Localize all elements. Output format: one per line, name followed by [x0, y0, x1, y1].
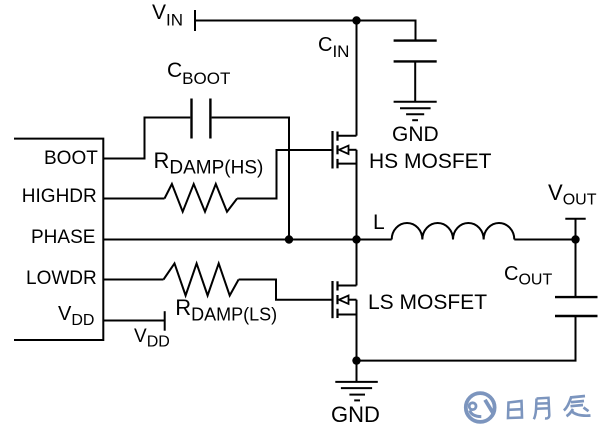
node ground junction dot	[352, 356, 360, 364]
capacitor COUT top plate	[555, 296, 598, 298]
capacitor CIN top plate	[394, 39, 437, 41]
VIN terminal tick	[194, 10, 196, 31]
logo watermark circle	[466, 393, 495, 422]
label VOUT	[548, 182, 596, 209]
wire PHASE pin	[103, 239, 356, 241]
VOUT terminal tick	[565, 218, 585, 220]
VDD terminal tick	[164, 311, 166, 331]
label CBOOT	[167, 60, 230, 87]
wire HS source to PHASE node	[356, 150, 358, 240]
capacitor C_BOOT right plate	[209, 99, 211, 139]
wire PHASE node to inductor	[357, 239, 392, 241]
label GND (bottom)	[331, 404, 380, 426]
wire VOUT tick to node	[575, 219, 577, 240]
wire BOOT pin	[103, 118, 190, 159]
logo character 月	[534, 398, 550, 419]
label HS MOSFET	[369, 151, 492, 172]
label VIN	[152, 2, 183, 29]
resistor R_DAMP(LS)	[164, 263, 239, 295]
label pin PHASE	[31, 228, 95, 247]
wire LOWDR pin to resistor	[103, 279, 163, 281]
ground symbol (bottom, under LS MOSFET)	[335, 382, 378, 401]
wire resistor to LS gate	[239, 280, 332, 300]
capacitor COUT bottom plate	[555, 315, 598, 317]
node VIN junction dot	[352, 16, 360, 24]
label pin VDD	[58, 304, 94, 329]
wire inductor to VOUT node	[514, 239, 575, 241]
label L (inductor)	[373, 212, 385, 233]
wire VDD pin	[103, 320, 164, 322]
transistor LS MOSFET	[333, 281, 357, 318]
transistor HS MOSFET	[333, 131, 357, 169]
resistor R_DAMP(HS)	[165, 184, 238, 212]
inductor L	[392, 223, 515, 240]
wire C_BOOT to PHASE node	[212, 118, 289, 240]
wire ground node to COUT bottom	[357, 316, 576, 361]
logo character 辰	[564, 396, 591, 416]
label pin HIGHDR	[22, 187, 97, 206]
wire LS source to ground node	[356, 300, 358, 361]
logo character 日	[508, 401, 522, 418]
wire PHASE node to LS drain	[356, 240, 358, 286]
wire CIN to ground	[414, 61, 416, 101]
wire main vertical: VIN node to HS drain	[356, 21, 358, 136]
wire resistor to HS gate	[237, 150, 331, 199]
label pin BOOT	[44, 149, 98, 168]
controller box (open left side)	[14, 139, 103, 340]
capacitor CIN bottom plate	[394, 60, 437, 62]
label GND (top)	[392, 124, 439, 145]
label VDD external	[134, 327, 170, 351]
node PHASE/CBOOT junction dot	[285, 235, 293, 243]
label RDAMP(HS)	[154, 150, 264, 178]
node PHASE/main junction dot	[352, 235, 360, 243]
label RDAMP(LS)	[175, 297, 277, 324]
wire HIGHDR pin to resistor	[103, 198, 164, 200]
wire corner down to CIN	[415, 20, 417, 41]
wire ground stub	[356, 361, 358, 382]
label CIN	[318, 35, 349, 60]
node VOUT junction dot	[571, 235, 579, 243]
label COUT	[504, 264, 552, 289]
wire VIN to top corner	[195, 20, 416, 22]
label LS MOSFET	[368, 292, 487, 313]
capacitor C_BOOT left plate	[190, 99, 192, 139]
ground symbol (top right, under CIN)	[394, 102, 437, 121]
label pin LOWDR	[26, 269, 97, 288]
wire VOUT node to COUT	[575, 240, 577, 298]
